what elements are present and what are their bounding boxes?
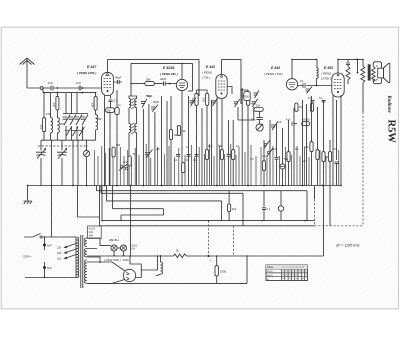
svg-text:4x1,5: 4x1,5 [89, 227, 96, 230]
capacitor C2 1nF [79, 86, 81, 91]
svg-text:100: 100 [39, 124, 43, 129]
wire V2 bottom column [181, 91, 183, 186]
wire drop heater left [77, 186, 79, 218]
resistor mid m1 [262, 161, 265, 171]
staircase line 2 [101, 186, 243, 226]
tube tip nipples [107, 74, 109, 76]
dial lamp 1 [111, 245, 117, 251]
svg-text:150: 150 [57, 252, 62, 255]
capacitor 50pF mid [256, 111, 262, 124]
wire a3 [56, 93, 58, 118]
capacitor m2 [275, 158, 279, 160]
transformer T1 secondary mid [85, 249, 87, 257]
svg-text:( PENS: ( PENS [202, 71, 212, 75]
svg-text:E 447: E 447 [87, 65, 97, 69]
antenna socket connector [40, 87, 43, 90]
svg-text:30pF: 30pF [115, 76, 122, 80]
svg-text:50k: 50k [146, 77, 151, 81]
wire ground drop [27, 186, 29, 201]
capacitor r-b pair [322, 100, 326, 102]
resistor zigzag grid V5 [346, 66, 350, 84]
tube V1 electrodes [104, 76, 112, 88]
transformer T1 core [81, 235, 83, 288]
IF1 coil right 300 [205, 93, 208, 105]
wire comb ticks to ground bus [94, 144, 338, 186]
wire column a4 [66, 93, 82, 141]
speaker driver box [378, 68, 384, 78]
svg-text:50k: 50k [116, 143, 121, 147]
junction dots on ground bus [105, 185, 111, 187]
svg-text:0,1: 0,1 [193, 158, 197, 162]
svg-text:1M: 1M [256, 103, 261, 107]
wire coil to grid line [315, 78, 317, 85]
dial lamp 2 [120, 245, 126, 251]
capacitor 0,1 c-d [195, 155, 199, 157]
switch contact s2 [267, 151, 269, 153]
svg-text:300: 300 [202, 97, 206, 102]
wire 10k column [170, 96, 172, 186]
resistor 40k vertical [177, 126, 180, 136]
coil osc T top right [135, 99, 137, 108]
wire right columns r1 [303, 96, 331, 256]
capacitor coupling V4-V5 [303, 83, 305, 87]
svg-text:E 424N: E 424N [163, 66, 175, 70]
wire stub join [348, 59, 358, 72]
top bus line4 [292, 59, 317, 67]
wire coil bottom rail [44, 139, 96, 141]
wire V3 to IF2 [228, 87, 249, 105]
node j1 [57, 87, 59, 89]
wire col 294 [293, 108, 295, 186]
svg-text:100: 100 [46, 112, 51, 116]
gang coupling dashed link [38, 144, 88, 149]
output transformer core [368, 64, 371, 80]
coil L2 [57, 118, 59, 133]
wire 1500 column [216, 256, 218, 283]
wire V2 top [181, 63, 183, 79]
capacitor 40pF [164, 81, 166, 85]
svg-text:Röhre: Röhre [267, 266, 274, 269]
node j4 [82, 92, 84, 94]
wire a3 down [56, 133, 58, 140]
resistor r1 15k [310, 142, 313, 152]
svg-text:( NSW 200k ): ( NSW 200k ) [104, 258, 121, 262]
potentiometer volume [256, 124, 263, 131]
node filament line [160, 255, 162, 257]
wire V3 top [221, 59, 223, 74]
wire a2 down [50, 133, 52, 140]
coil osc T bottom right [135, 124, 137, 133]
svg-text:E 453: E 453 [324, 66, 333, 70]
grid cap V1 right [114, 80, 122, 84]
svg-text:+: + [210, 258, 212, 262]
svg-text:0,1: 0,1 [300, 79, 304, 83]
resistor d-a [220, 150, 223, 160]
svg-text:4nF: 4nF [89, 231, 94, 234]
tuning capacitor VC2 [57, 149, 67, 159]
svg-text:1300: 1300 [123, 258, 130, 262]
wire mains lower [25, 277, 76, 279]
svg-text:0,1: 0,1 [267, 207, 271, 211]
resistor 100 [43, 118, 46, 132]
resistor m4 [287, 152, 290, 162]
wire to C1 [43, 87, 51, 89]
node plus [207, 255, 209, 257]
svg-text:0,5: 0,5 [250, 157, 254, 161]
capacitor r-a pair [311, 100, 315, 102]
transformer tap arrows [65, 244, 77, 259]
resistor r2 [316, 150, 319, 160]
tube V1 cathode dot [107, 90, 109, 92]
svg-text:ZF = 1285 kHz: ZF = 1285 kHz [335, 244, 360, 248]
junction dots on staircase [45, 221, 306, 278]
svg-text:Ug(V): Ug(V) [267, 275, 273, 277]
svg-text:40/100: 40/100 [302, 118, 310, 122]
svg-text:50p: 50p [147, 94, 152, 98]
wire cap to V2 [166, 83, 177, 85]
IF1 trimmer arrow right [211, 98, 217, 106]
svg-text:Ua(V): Ua(V) [267, 271, 273, 273]
tube V3 cathode dot [221, 93, 223, 95]
svg-text:0,1: 0,1 [236, 144, 240, 148]
capacitor mains lower 5nF [43, 266, 46, 269]
wire mid columns b [189, 96, 212, 186]
speaker cone [384, 63, 390, 83]
tube V4 electrodes [289, 82, 295, 87]
svg-text:1M: 1M [232, 207, 237, 211]
ground bus main [28, 185, 342, 187]
capacitor 50nF stub [346, 59, 350, 66]
resistor 10k vertical osc [169, 130, 172, 140]
resistor mid v1 [295, 103, 298, 111]
svg-text:0,1: 0,1 [186, 145, 190, 149]
tube V5 cathode dot [337, 91, 339, 93]
filament line [87, 255, 174, 257]
svg-text:R5W: R5W [386, 120, 397, 144]
svg-text:50k: 50k [218, 144, 223, 148]
svg-text:2nF: 2nF [277, 120, 282, 124]
wire secondary mid out [87, 249, 100, 263]
wire rectifier cathode [141, 256, 157, 270]
capacitor 0,1 c-a [176, 155, 180, 157]
wire col 264 [263, 140, 265, 186]
svg-text:50k: 50k [107, 108, 112, 112]
resistor osc 1n box [115, 108, 119, 115]
wire secondary taps to lamps [87, 238, 111, 246]
resistor c-b [182, 163, 185, 173]
staircase line 3 [107, 186, 222, 221]
wire col 242 [242, 88, 244, 186]
IF2 coil box [246, 94, 249, 105]
band coil box rail [63, 113, 88, 115]
coil 500 vertical [244, 92, 250, 101]
wire band drops to bus [52, 140, 79, 185]
resistor 650 [94, 96, 97, 110]
coil osc T top left [129, 99, 131, 108]
svg-text:4nF: 4nF [123, 160, 128, 164]
oscillator column o1 [116, 90, 118, 186]
svg-text:( PENS 125k ): ( PENS 125k ) [77, 71, 96, 75]
svg-text:1500: 1500 [220, 270, 227, 274]
wire col 270 [269, 120, 271, 186]
speaker frame [373, 62, 381, 84]
capacitor r-c [335, 162, 339, 186]
padder trimmer arrows [63, 115, 88, 126]
svg-text:220V~: 220V~ [23, 255, 32, 259]
svg-text:1nF: 1nF [208, 144, 213, 148]
svg-text:1nF: 1nF [48, 81, 53, 85]
svg-text:0,5: 0,5 [333, 147, 337, 151]
wire a1 down [43, 132, 45, 141]
junction dots top area [44, 59, 363, 92]
resistor d-c [232, 150, 235, 160]
tube V3 electrodes [218, 81, 225, 90]
output transformer primary zigzag [361, 66, 365, 83]
top bus line1 [108, 59, 200, 96]
svg-text:0,1: 0,1 [319, 96, 323, 100]
svg-text:LBE BLn: LBE BLn [109, 238, 120, 242]
svg-text:300: 300 [52, 102, 56, 107]
node lamp drops [114, 255, 124, 257]
wire IF2 columns [238, 90, 254, 186]
resistor c-e [205, 150, 208, 160]
svg-text:1M: 1M [262, 154, 266, 158]
svg-text:( PENS 173k ): ( PENS 173k ) [264, 72, 283, 76]
wire input rail [43, 88, 96, 93]
wire primary bottom [75, 237, 78, 278]
core hatch osc T bottom [131, 123, 134, 134]
transformer T1 primary [77, 237, 79, 278]
svg-text:0,1A: 0,1A [130, 248, 135, 251]
dashed chassis vertical mid [314, 188, 316, 226]
resistor 40-100 horizontal [302, 122, 310, 126]
resistor mid v2 [310, 103, 313, 111]
tuning capacitor VC1 [36, 149, 46, 159]
resistor 300 [56, 96, 59, 110]
wire V5 top [337, 59, 339, 73]
capacitor 0,1 c-c [187, 155, 191, 157]
svg-text:650: 650 [97, 117, 102, 121]
trimmer arrow osc2 [151, 105, 158, 113]
tube V5 electrodes [334, 80, 342, 89]
electrolytic m3 [280, 164, 285, 169]
node bus5 [357, 59, 359, 61]
wire heater drop to rectifier [129, 186, 131, 257]
svg-text:40pF: 40pF [160, 77, 167, 81]
wire osc columns [143, 96, 167, 186]
wire drop to mains switch [51, 186, 53, 238]
transformer T1 secondary HT [85, 260, 87, 283]
node j5 [357, 72, 359, 74]
svg-text:2nF: 2nF [272, 147, 277, 151]
capacitor d-b [227, 155, 231, 157]
capacitor stair [262, 191, 266, 221]
wire stair right verticals [314, 186, 316, 199]
wire drop heater right [78, 186, 100, 218]
top bus line3 [222, 59, 242, 104]
wire V5 bottom columns [333, 95, 341, 186]
wire V3 bottom columns [217, 98, 222, 186]
wire d columns [229, 120, 234, 186]
resistor 1500 [215, 266, 218, 276]
mains switch [24, 234, 76, 238]
tube V4 E444 envelope [286, 79, 297, 90]
wire transformer bottom drop [362, 83, 364, 112]
wire box2 right drop [188, 90, 193, 92]
wire column a2 [50, 93, 52, 118]
wire V4 top [291, 59, 293, 78]
wire a5 down [95, 130, 97, 140]
tube V1 E447 envelope [102, 72, 114, 95]
tube V5 E453 envelope [332, 73, 344, 97]
capacitor 41nF [292, 122, 297, 126]
long line hv [102, 186, 315, 221]
trimmer arrow osc3 [145, 150, 153, 159]
wire lamp drops [114, 251, 124, 256]
node j3 [57, 92, 59, 94]
voltage table cell marks [282, 267, 306, 279]
capacitor C1 1nF [51, 86, 53, 91]
voltage table frame [266, 265, 308, 281]
resistor 1M stair [228, 204, 231, 212]
wire osc coils [129, 96, 137, 186]
resistor riv zigzag inline [174, 254, 206, 258]
wire 1M stair leads [228, 191, 230, 221]
capacitor V1 cathode 0,1 [109, 95, 113, 105]
voltage table columns [282, 265, 305, 281]
svg-text:650: 650 [90, 102, 94, 107]
node j2 [82, 87, 84, 89]
resistor osc 50k vertical [112, 147, 115, 157]
wire col 288.5 [288, 120, 290, 186]
wire a5 [95, 93, 97, 115]
tube V2 electrodes [179, 83, 185, 88]
wire table corner [233, 226, 235, 256]
staircase line 1 [97, 186, 308, 221]
svg-text:( PENS: ( PENS [321, 72, 331, 76]
coil anode V4 [316, 68, 318, 79]
bottom bus [88, 256, 247, 283]
resistor r3 200 [322, 152, 325, 162]
switch contact s1 [264, 143, 266, 145]
tube V3 E443 envelope [216, 75, 227, 99]
wire IF1 columns [197, 90, 208, 186]
wire ct1 drop [86, 140, 88, 185]
wave switch arrows row2 [65, 127, 85, 136]
IF2 trimmer arrow right [251, 99, 257, 107]
svg-text:110: 110 [57, 258, 62, 261]
wire rectifier top hook [130, 256, 141, 278]
svg-text:173k ): 173k ) [202, 75, 210, 79]
coil L3 [96, 115, 98, 130]
wire between lamps [117, 247, 120, 249]
trimmer arrow mid [271, 122, 278, 130]
svg-text:4nF: 4nF [89, 235, 94, 238]
dashed chassis vertical right [362, 112, 364, 226]
top bus line2 [131, 63, 193, 96]
IF2 trimmer arrow left [234, 99, 240, 107]
svg-text:5nF: 5nF [47, 266, 52, 270]
svg-text:5nF: 5nF [47, 244, 52, 248]
wire filament to plus [205, 255, 324, 257]
coil osc T bottom left [129, 124, 131, 133]
ground symbol [24, 201, 33, 204]
resistor r4 [328, 152, 331, 162]
rectifier tube V6 [123, 269, 135, 281]
output transformer secondary zigzag [372, 66, 376, 81]
svg-text:0,1: 0,1 [308, 96, 312, 100]
svg-text:40k: 40k [181, 129, 186, 133]
core hatch osc T top [131, 98, 134, 109]
svg-text:1370k ): 1370k ) [321, 76, 331, 80]
svg-text:E 444: E 444 [271, 66, 280, 70]
wire C2 to V1 grid [81, 87, 101, 89]
resistor 50k horizontal [145, 82, 155, 86]
node V2 grid [169, 83, 171, 85]
capacitor mains upper 5nF [43, 244, 46, 247]
svg-text:Radione: Radione [386, 96, 391, 114]
IF1 coil left 300 [195, 93, 198, 105]
wire col 336 [336, 100, 338, 160]
transformer T1 secondary top [85, 238, 87, 246]
switch band contacts [120, 165, 123, 168]
wire gang drop g2 [61, 140, 63, 185]
wire rectifier anodes [87, 262, 125, 271]
svg-text:50p: 50p [251, 118, 256, 122]
resistor 50k box V1 [106, 108, 115, 113]
trimmer ct1 [83, 150, 89, 156]
choke filter [161, 262, 163, 274]
trimmer arrow v4 [306, 87, 313, 94]
wire vertical 208 [208, 221, 210, 256]
wire speaker link [376, 66, 378, 80]
wire grid line V2 [131, 83, 163, 85]
annotation box 4nF [88, 226, 102, 238]
svg-text:500: 500 [245, 95, 250, 99]
wire V4 to V5 [298, 85, 332, 87]
tube V2 E424N envelope [176, 79, 187, 90]
svg-text:0,1: 0,1 [295, 147, 299, 151]
long line hv2 [100, 217, 315, 226]
resistor osc 5k vertical [128, 156, 131, 166]
svg-text:0,1: 0,1 [185, 158, 189, 162]
wire C1 to C2 [53, 87, 78, 89]
svg-text:50k: 50k [284, 157, 289, 161]
wire column a1 [43, 93, 45, 118]
wire col 276.5 [276, 124, 278, 186]
wire antenna lead-in [27, 59, 40, 89]
svg-text:220: 220 [57, 247, 62, 250]
trimmer arrow 500 [254, 91, 260, 99]
staircase line 4 [113, 186, 164, 221]
trimmer arrow osc1 [141, 99, 147, 108]
top bus line5 [338, 59, 363, 65]
wire V1 anode up [107, 59, 109, 72]
svg-text:E 443: E 443 [206, 65, 215, 69]
electrolytic stair [278, 206, 283, 211]
voltage table rows [266, 269, 308, 277]
svg-text:300: 300 [60, 122, 65, 126]
wire V1 cathode column [105, 95, 111, 186]
coil L1 [51, 118, 53, 133]
svg-text:1M: 1M [299, 105, 303, 109]
resistor 1M horizontal [254, 108, 263, 112]
dashed chassis horizontal [315, 225, 364, 227]
wire col 282.5 [282, 128, 284, 186]
wire gang drop g1 [41, 140, 44, 185]
IF1 trimmer arrow left [190, 98, 196, 106]
node grid V5 [316, 85, 318, 87]
